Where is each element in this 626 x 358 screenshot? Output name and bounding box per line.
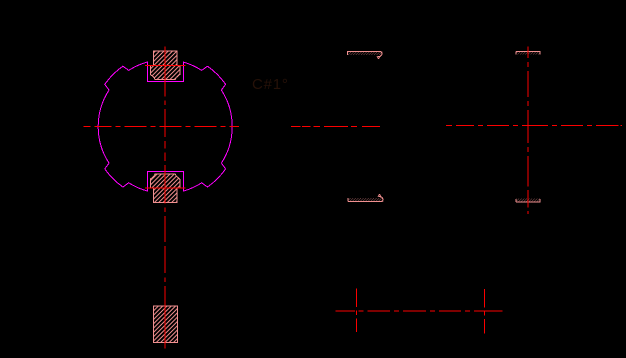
svg-text:C#1°: C#1° (252, 76, 289, 93)
